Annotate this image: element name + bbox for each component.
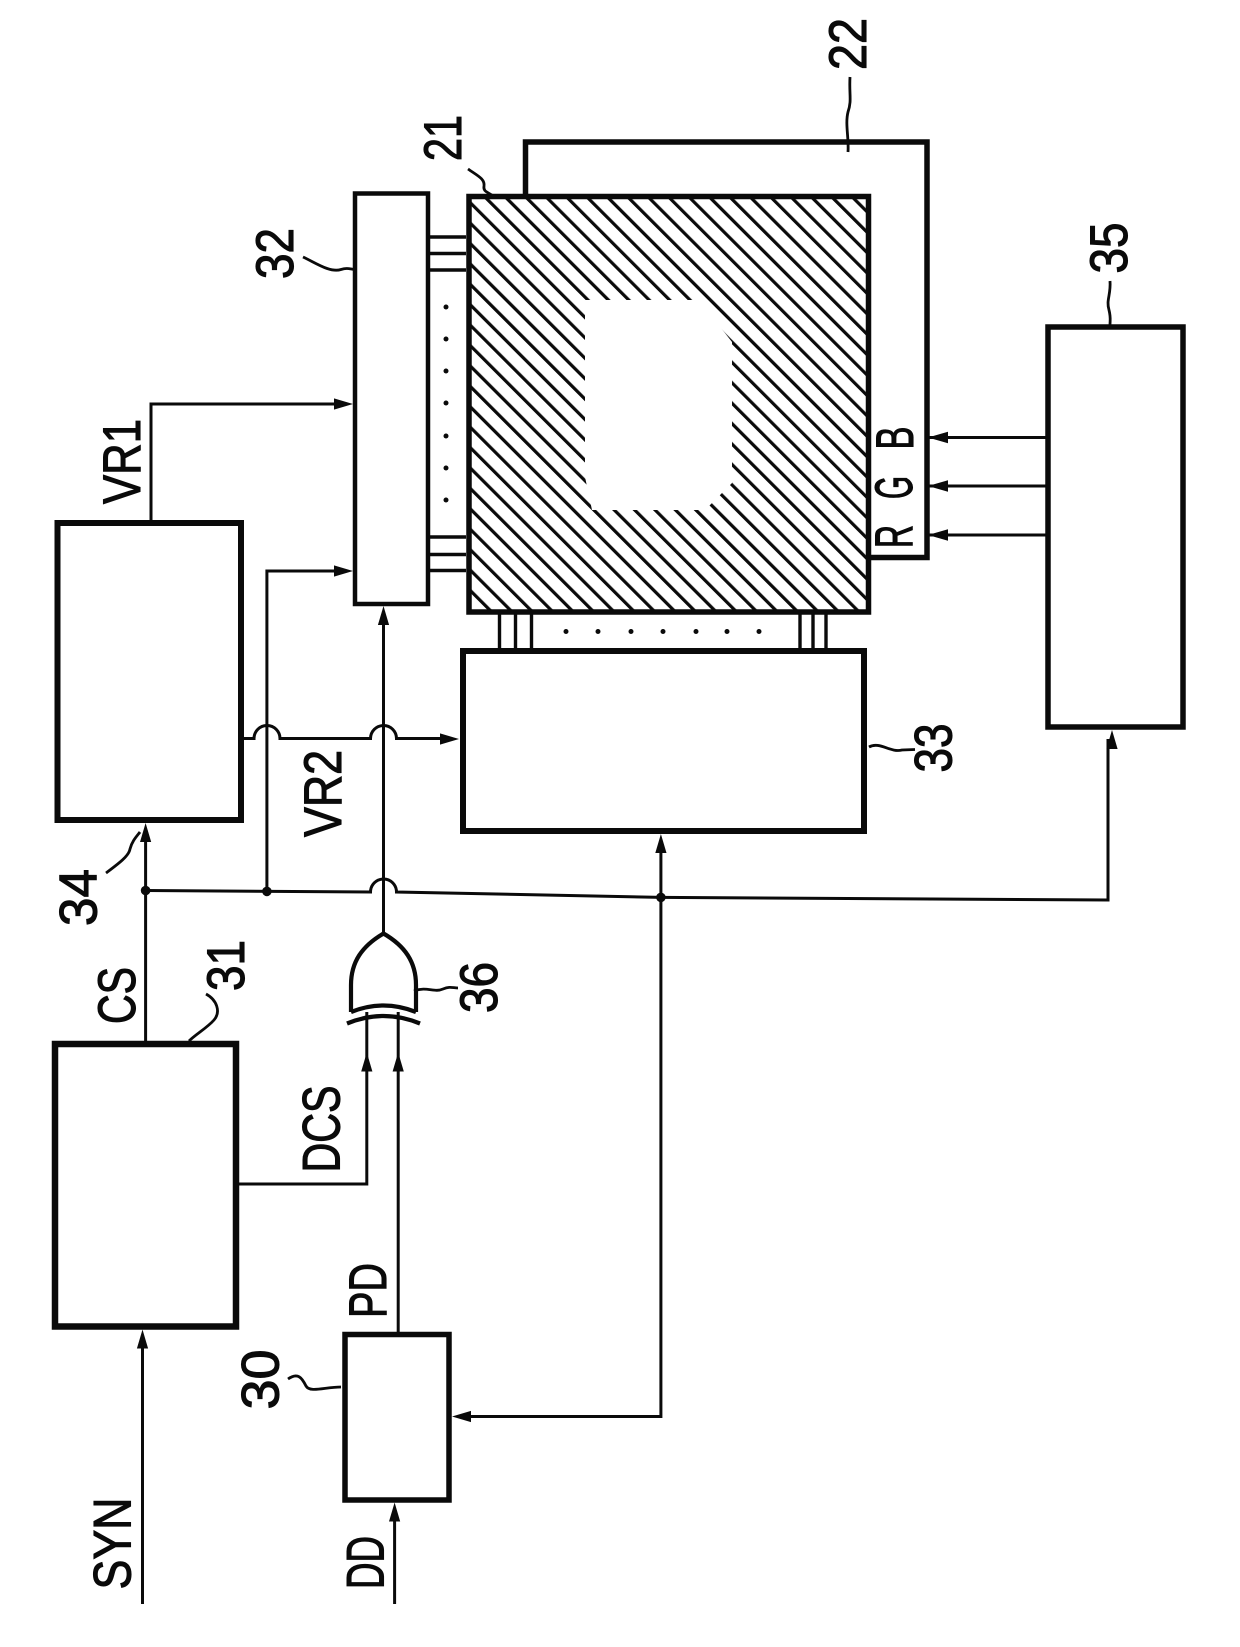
controller box 34 — [58, 523, 242, 820]
wire SYN into box 31 — [141, 1338, 144, 1604]
LCD panel 21 hatched — [469, 197, 869, 613]
svg-text:31: 31 — [197, 940, 256, 991]
tie lines between panel 21 and box 33 — [500, 613, 827, 651]
arrowhead into box 33 bottom — [655, 834, 666, 853]
wire DD into box 30 — [393, 1511, 396, 1604]
dot row between panel and box 33 — [564, 629, 762, 634]
xor output wire up into box 32 bottom — [382, 615, 385, 934]
arrowhead bus into box 35 — [1106, 730, 1117, 749]
tie lines between box 32 and panel 21 — [430, 237, 466, 571]
svg-text:34: 34 — [50, 869, 109, 926]
svg-text:VR1: VR1 — [93, 419, 152, 504]
sync circuit box 31 — [55, 1044, 236, 1327]
svg-text:PD: PD — [339, 1263, 398, 1318]
wire from bus up into box 32 lower input — [267, 571, 344, 891]
svg-text:36: 36 — [450, 962, 509, 1013]
junction dot at x661/bus — [656, 893, 666, 903]
arrowhead DCS into xor gate — [361, 1053, 372, 1072]
leader for 22 — [847, 77, 850, 152]
arrowhead CS into box 34 — [140, 823, 151, 842]
arrowhead into box 32 lower input — [334, 565, 353, 576]
svg-text:21: 21 — [414, 115, 473, 161]
svg-text:SYN: SYN — [84, 1498, 143, 1590]
arrowhead xor output into box 32 — [378, 606, 389, 625]
svg-text:DCS: DCS — [293, 1086, 352, 1173]
gate driver box 32 — [355, 194, 428, 605]
svg-text:30: 30 — [232, 1350, 291, 1410]
svg-text:35: 35 — [1080, 223, 1139, 274]
video circuit box 35 — [1048, 327, 1183, 727]
svg-text:DD: DD — [337, 1536, 396, 1589]
leader for 34 — [106, 832, 140, 873]
source driver box 33 — [463, 651, 864, 831]
junction dot at CS/bus — [141, 886, 151, 896]
leader for 32 — [303, 257, 354, 270]
arrowhead B — [928, 432, 948, 444]
svg-text:CS: CS — [88, 967, 147, 1024]
arrowhead VR2 into box 33 — [440, 733, 459, 744]
feedback wire from bus junction down and left into box 30 — [461, 897, 661, 1416]
svg-text:G: G — [865, 476, 924, 499]
svg-text:22: 22 — [819, 18, 878, 70]
dot column between box 32 and panel — [444, 305, 449, 503]
svg-text:R: R — [865, 525, 924, 548]
leader for 33 — [869, 745, 915, 750]
leader for 31 — [189, 994, 217, 1041]
arrowhead R — [928, 529, 948, 541]
junction dot at x267/bus — [262, 887, 272, 897]
arrowhead DD into box 30 — [389, 1503, 400, 1522]
outer display frame box 22 — [526, 142, 928, 558]
arrowhead VR1 into box 32 — [334, 398, 353, 409]
wire B — [929, 436, 1048, 439]
arrowhead into box 30 right edge — [452, 1411, 471, 1422]
wire CS from box 31 to box 34 — [144, 832, 147, 1044]
svg-text:33: 33 — [905, 724, 964, 773]
wire VR2 from box 34 to box 33 with two hops — [241, 726, 450, 739]
wire R (from 35 to 22) — [929, 534, 1048, 537]
wire DCS from box 31 to xor gate left input — [236, 1008, 367, 1184]
wire PD from box 30 to xor gate right input — [397, 1008, 400, 1335]
detector box 30 — [345, 1335, 449, 1501]
leader for 36 — [414, 987, 458, 991]
horizontal bus wire with hop over xor output — [146, 739, 1108, 900]
svg-text:B: B — [866, 427, 925, 450]
wire VR1 from box 34 to box 32 — [151, 404, 344, 522]
leader for 30 — [288, 1376, 341, 1389]
svg-text:VR2: VR2 — [294, 750, 353, 837]
leader for 35 — [1108, 281, 1110, 325]
arrowhead PD into xor gate — [393, 1053, 404, 1072]
svg-text:32: 32 — [246, 228, 305, 279]
wire G — [929, 485, 1048, 488]
leader for 21 — [468, 169, 493, 196]
xor gate 36 — [347, 934, 420, 1024]
arrowhead SYN into box 31 — [137, 1330, 148, 1349]
arrowhead G — [928, 480, 948, 492]
wire from bus junction up into box 33 — [659, 843, 662, 897]
